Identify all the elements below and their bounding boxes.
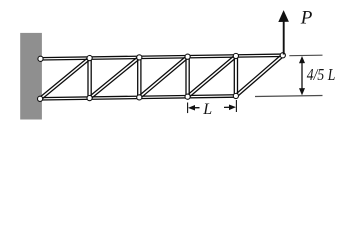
svg-text:4/5 L: 4/5 L [307,65,336,84]
joint node B4 [233,93,238,98]
joint node B3 [185,94,190,99]
diagonal member D5 [237,56,284,97]
vertical member V1 [87,58,89,98]
vertical member V4 [233,56,235,96]
joint node B1 [87,95,92,100]
joint node T4 [233,53,238,58]
vertical member V2 [137,57,139,97]
diagonal member D2 [90,58,140,99]
load arrow P [278,10,289,54]
vertical member V3 [185,57,187,97]
diagonal member D1 [41,59,91,100]
joint node B2 [137,95,142,100]
dimension 4/5L: top extension line [289,54,322,56]
svg-text:P: P [300,8,313,29]
joint node T2 [137,55,142,60]
joint node T0 [38,56,43,61]
diagonal member D4 [188,57,236,98]
wall support [20,33,42,120]
dimension L: left arrow [188,105,200,111]
dimension L: left extension tick [187,102,189,113]
top chord [41,56,283,60]
dimension L: right arrow [224,104,236,110]
joint node T5 [280,53,285,58]
dimension 4/5L: vertical dimension line with arrowheads [299,56,305,95]
diagonal member D3 [140,58,188,99]
joint node T3 [185,54,190,59]
joint node B0 [38,96,43,101]
joint node T1 [87,55,92,60]
dimension 4/5L: bottom extension line [255,95,323,98]
bottom chord [40,97,236,100]
svg-text:L: L [202,101,212,118]
dimension L: right extension tick [235,100,237,112]
